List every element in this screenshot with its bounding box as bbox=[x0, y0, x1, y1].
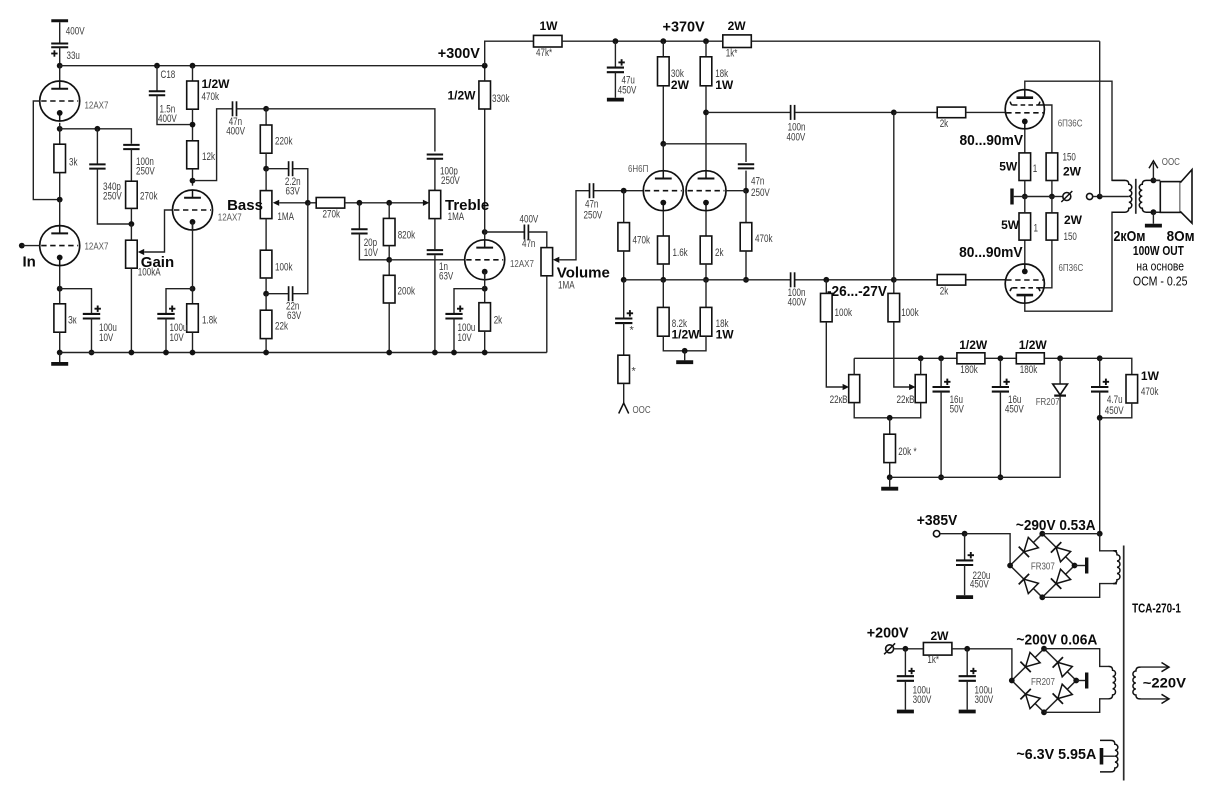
svg-text:150: 150 bbox=[1063, 152, 1076, 164]
probe bar (6.3V center tap) bbox=[1100, 748, 1104, 765]
capacitor 47u 450V bbox=[607, 67, 624, 69]
wire cap1 feed bbox=[904, 649, 906, 676]
wire 6.3V center tap bbox=[1103, 755, 1115, 757]
input terminal In dot bbox=[19, 243, 25, 249]
junction bias riser at mid rail bbox=[891, 277, 897, 283]
upper top vertex node bbox=[1039, 531, 1045, 537]
svg-text:1/2W: 1/2W bbox=[202, 77, 231, 91]
wire Volume wiper to 47n 250V bbox=[559, 191, 589, 260]
lower left vertex node (+) bbox=[1009, 678, 1015, 684]
wire Volume pot bottom to ground bus bbox=[546, 276, 548, 353]
wire lower plate to primary bottom bbox=[1025, 212, 1125, 311]
wire V1a grid to lower node bbox=[33, 101, 59, 200]
junction node A (V1b plate / V1a grid) bbox=[57, 197, 63, 203]
svg-text:200k: 200k bbox=[398, 286, 416, 298]
svg-text:80...90mV: 80...90mV bbox=[960, 132, 1024, 149]
svg-text:250V: 250V bbox=[103, 190, 123, 202]
probe bar (200V winding return) bbox=[1085, 673, 1088, 689]
svg-text:1: 1 bbox=[1034, 223, 1039, 235]
svg-text:FR207: FR207 bbox=[1036, 397, 1060, 408]
svg-text:470k: 470k bbox=[1141, 386, 1159, 398]
svg-text:1/2W: 1/2W bbox=[448, 89, 477, 103]
upper bottom vertex node bbox=[1039, 594, 1045, 600]
power transformer 220V mains winding bbox=[1133, 667, 1141, 699]
wire 47n#2 to Volume pot top bbox=[529, 232, 547, 248]
resistor 180k 1/2W #2 bbox=[1016, 353, 1044, 364]
wire cathode node to 1.8k bbox=[192, 289, 194, 304]
triode V3 12AX7 (third stage) bbox=[465, 240, 505, 280]
svg-text:470k: 470k bbox=[633, 235, 651, 247]
OOC connector chevron (feedback tail) bbox=[619, 403, 629, 414]
wire grid node down to 470k bbox=[623, 191, 625, 223]
wire rail to 16u 50V bbox=[940, 358, 942, 387]
wire secondary bottom to speaker bbox=[1153, 211, 1160, 213]
junction 470k at rail A bbox=[190, 63, 196, 69]
svg-text:300V: 300V bbox=[975, 694, 995, 706]
wire V1a cathode down to 3k bbox=[59, 123, 61, 144]
wire grid rail to 2k bbox=[894, 111, 937, 113]
junction 20p tap bbox=[357, 200, 363, 206]
ground symbol (bias network) bbox=[889, 477, 891, 487]
wire 180k#1 to next node bbox=[985, 357, 1016, 359]
power terminal 400V bar bbox=[51, 19, 68, 22]
svg-text:3к: 3к bbox=[68, 315, 77, 327]
junction 1.6k at mid rail bbox=[660, 277, 666, 283]
svg-text:450V: 450V bbox=[1105, 405, 1125, 417]
resistor 2k (splitter) bbox=[700, 236, 712, 264]
resistor 20k * bbox=[884, 434, 896, 462]
resistor 180k 1/2W #1 bbox=[957, 353, 985, 364]
wire -26V node to 100k#1 bbox=[825, 280, 827, 294]
junction Gain pot top node bbox=[129, 221, 135, 227]
wire 1n to ground bus bbox=[434, 255, 436, 352]
svg-text:6П36С: 6П36С bbox=[1059, 263, 1084, 274]
wire cathode node right bbox=[60, 129, 132, 144]
wire 22n to riser bbox=[293, 203, 308, 294]
junction 200k at ground bus bbox=[386, 350, 392, 356]
svg-text:-26...-27V: -26...-27V bbox=[827, 283, 887, 300]
wire V1b cathode to junction bbox=[59, 266, 61, 289]
wire 100n to 270k bbox=[130, 149, 132, 181]
junction 2k at mid rail bbox=[703, 277, 709, 283]
ground symbol (speaker) bbox=[1152, 212, 1154, 224]
svg-text:47n: 47n bbox=[751, 176, 764, 188]
junction 4.7u at rail bbox=[1097, 355, 1103, 361]
wire 330k to +300V node bbox=[484, 66, 486, 81]
ground symbol (220u) bbox=[964, 565, 966, 595]
wire plate node up to 330k bbox=[484, 109, 486, 232]
wire preamp ground bus bbox=[60, 352, 547, 354]
wire bridge2 bottom to winding bbox=[1044, 699, 1109, 713]
capacitor 47n 250V (cross coupling) bbox=[738, 163, 754, 165]
wire secondary top to speaker bbox=[1153, 179, 1160, 181]
svg-text:*: * bbox=[630, 325, 635, 337]
potentiometer 22kB #1 body bbox=[849, 375, 860, 403]
junction tone stack top node bbox=[263, 106, 269, 112]
power transformer 290V winding bbox=[1113, 551, 1120, 584]
svg-text:180k: 180k bbox=[1020, 364, 1038, 376]
capacitor 16u 50V bbox=[933, 386, 950, 388]
resistor 100k (bass) bbox=[260, 250, 272, 278]
wire mid rail segment 2 bbox=[795, 279, 1006, 281]
wire grid wire to V3 grid bbox=[389, 259, 465, 261]
svg-text:1W: 1W bbox=[715, 78, 734, 92]
svg-text:12AX7: 12AX7 bbox=[218, 212, 242, 223]
svg-text:22k: 22k bbox=[275, 321, 289, 333]
wire 2k to ground bus bbox=[484, 331, 486, 352]
svg-text:ОСМ - 0.25: ОСМ - 0.25 bbox=[1133, 273, 1188, 288]
lower top-right diode bbox=[1058, 662, 1073, 676]
wire rail to 18k bbox=[705, 41, 707, 57]
wire V3 plate up bbox=[484, 232, 486, 240]
capacitor 33u 400V (polarized) bbox=[51, 43, 68, 45]
capacitor 100u 10V (V1b cathode) bbox=[83, 313, 100, 315]
wire 150 to output rail bbox=[1051, 181, 1053, 197]
svg-text:250V: 250V bbox=[751, 187, 771, 199]
resistor 820k bbox=[383, 218, 395, 245]
wire 8.2k from mid rail bbox=[662, 280, 664, 308]
wire 30k to plate node bbox=[662, 86, 664, 144]
upper bridge rectifier FR307 diamond bbox=[1010, 534, 1074, 598]
wire +300V preamp rail A bbox=[60, 65, 485, 67]
wire 1k* to cap2 node bbox=[952, 649, 1012, 681]
capacitor * (feedback, polarized) bbox=[615, 317, 632, 319]
svg-text:12AX7: 12AX7 bbox=[85, 242, 109, 253]
svg-text:2W: 2W bbox=[728, 19, 747, 33]
svg-text:63V: 63V bbox=[439, 271, 454, 283]
wire resistor to OOC chevron bbox=[623, 383, 625, 403]
svg-text:400V: 400V bbox=[66, 26, 86, 38]
junction splitter grid node bbox=[621, 188, 627, 194]
lower right vertex node (-) bbox=[1073, 678, 1079, 684]
svg-text:470k: 470k bbox=[202, 91, 220, 103]
wire Treble bottom to 1n bbox=[434, 219, 436, 250]
junction bass lower node bbox=[263, 291, 269, 297]
wire pot1 top to bias rail bbox=[853, 358, 855, 374]
resistor 18k 1W bbox=[700, 57, 712, 86]
wire 100u#2 to ground bus bbox=[165, 319, 167, 353]
wire 8.2k to ground node bbox=[663, 336, 684, 351]
wire cathode node to 2k bbox=[484, 289, 486, 303]
wire left plate to 47n down-coupling bbox=[663, 144, 746, 162]
wire bridge1 AC bottom to winding bbox=[1042, 584, 1117, 598]
svg-text:250V: 250V bbox=[584, 210, 604, 222]
svg-text:400V: 400V bbox=[226, 126, 246, 138]
upper right vertex node (-) bbox=[1072, 563, 1078, 569]
svg-text:100kA: 100kA bbox=[138, 267, 162, 279]
svg-text:250V: 250V bbox=[136, 166, 156, 178]
wire In to V1b grid bbox=[22, 245, 40, 247]
wire upper plate to primary top bbox=[1025, 81, 1125, 180]
svg-text:450V: 450V bbox=[618, 85, 638, 97]
svg-text:+200V: +200V bbox=[867, 625, 909, 642]
capacitor 2.2n 63V bbox=[288, 161, 290, 176]
resistor 470k 1W bbox=[1126, 375, 1138, 403]
junction upper grid rail / bias riser bbox=[891, 110, 897, 116]
wire upper cathode to 5W 1 bbox=[1024, 129, 1026, 153]
capacitor 340p 250V bbox=[89, 163, 105, 165]
capacitor 47n 400V (to volume) bbox=[523, 225, 525, 240]
wire 12k to plate node bbox=[192, 169, 194, 186]
wire 180k#2 to diode node bbox=[1044, 357, 1099, 359]
resistor 270k (tone) bbox=[316, 198, 345, 209]
junction 340p tap bbox=[95, 126, 101, 132]
svg-text:150: 150 bbox=[1064, 231, 1077, 243]
svg-text:250V: 250V bbox=[441, 175, 461, 187]
svg-text:100W OUT: 100W OUT bbox=[1133, 243, 1184, 258]
wire 1.6k to mid rail bbox=[662, 264, 664, 280]
wire left plate lead bbox=[662, 144, 664, 170]
power transformer core line bbox=[1123, 546, 1125, 781]
junction left plate node bbox=[660, 141, 666, 147]
svg-text:4.7u: 4.7u bbox=[1107, 394, 1123, 406]
junction splitter ground node bbox=[682, 348, 688, 354]
wire 3k to node A bbox=[59, 173, 61, 200]
junction 1.8k at ground bus bbox=[190, 350, 196, 356]
wire 47n 250V to grid node bbox=[594, 190, 644, 192]
wire coupling node to 100n bbox=[706, 111, 790, 113]
svg-text:2k: 2k bbox=[715, 247, 724, 259]
wire terminal to B+ node bbox=[1093, 196, 1100, 198]
wire 220V top lead bbox=[1141, 666, 1168, 668]
junction V1a cathode node bbox=[57, 126, 63, 132]
resistor 1.8k (V2 cathode) bbox=[187, 304, 199, 332]
capacitor 100n 400V (upper coupling) bbox=[790, 105, 792, 120]
wire rail to 30k bbox=[662, 41, 664, 57]
wire 220k to bass node bbox=[265, 153, 267, 169]
junction 150s at rail bbox=[1049, 194, 1055, 200]
wire 18k#2 from mid rail bbox=[705, 280, 707, 308]
wire 270k to treble wire bbox=[345, 202, 423, 204]
wire terminal to 33u cap bbox=[59, 22, 61, 43]
capacitor 22n 63V bbox=[288, 286, 290, 301]
resistor 470k 1/2W (V2 plate load) bbox=[187, 81, 199, 109]
wire 100k#2 to pot2 arrow bbox=[894, 322, 910, 387]
svg-text:1k*: 1k* bbox=[726, 47, 738, 59]
svg-text:2W: 2W bbox=[1064, 213, 1083, 227]
wire cathode node to 100u bbox=[166, 289, 193, 314]
svg-text:10V: 10V bbox=[458, 332, 473, 344]
junction 100u 300V #2 node bbox=[964, 646, 970, 652]
wire 470k to mid rail bbox=[623, 251, 625, 280]
resistor 3k (V1a cathode) bbox=[54, 144, 66, 172]
resistor 1 5W (lower cathode) bbox=[1019, 213, 1031, 240]
junction 18k at rail bbox=[703, 38, 709, 44]
svg-text:63V: 63V bbox=[286, 186, 301, 198]
junction 220u node bbox=[962, 531, 968, 537]
junction V2 cathode node bbox=[190, 286, 196, 292]
junction 30k at rail bbox=[660, 38, 666, 44]
wire mid rail to lower 2k bbox=[894, 279, 937, 281]
resistor 330k 1/2W bbox=[479, 81, 491, 109]
wire 16u 450V to bottom rail bbox=[999, 392, 1001, 478]
svg-text:2k: 2k bbox=[494, 315, 503, 327]
wire 18k#2 to ground node bbox=[685, 336, 706, 351]
junction 100u 300V #1 node bbox=[903, 646, 909, 652]
open terminal (B+ tap) bbox=[1087, 193, 1093, 199]
junction 470k-L at mid rail bbox=[621, 277, 627, 283]
wire mid rail bbox=[624, 279, 791, 281]
wire 100k to lower bass node bbox=[265, 278, 267, 294]
resistor 18k 1W (splitter) bbox=[700, 307, 712, 336]
junction Gain pot at ground bus bbox=[129, 350, 135, 356]
svg-text:+370V: +370V bbox=[663, 18, 705, 35]
terminal +200V (slashed) bbox=[886, 645, 894, 653]
wire 220u cap feed bbox=[964, 534, 966, 561]
wire V2 cathode down bbox=[192, 222, 194, 289]
wire 20p to grid wire bbox=[359, 234, 389, 260]
svg-text:220k: 220k bbox=[275, 136, 293, 148]
svg-text:10V: 10V bbox=[99, 332, 114, 344]
svg-text:FR207: FR207 bbox=[1031, 677, 1055, 688]
wire Gain wiper to V2 grid bbox=[144, 210, 172, 252]
wire bridge2 top to winding bbox=[1044, 649, 1109, 667]
wire pot1 bottom to bottom wire bbox=[854, 403, 921, 418]
svg-text:450V: 450V bbox=[970, 579, 990, 591]
svg-text:100k: 100k bbox=[901, 307, 919, 319]
resistor 12k (V2 plate) bbox=[187, 141, 199, 169]
junction 820k top bbox=[386, 200, 392, 206]
svg-text:80...90mV: 80...90mV bbox=[959, 244, 1023, 261]
junction 16u 450V at bottom rail bbox=[998, 474, 1004, 480]
svg-text:FR307: FR307 bbox=[1031, 562, 1055, 573]
svg-text:+385V: +385V bbox=[917, 512, 958, 529]
svg-text:20k *: 20k * bbox=[898, 446, 916, 458]
junction C18 at rail A bbox=[154, 63, 160, 69]
wire Bass wiper to riser bbox=[279, 202, 308, 204]
Bass pot wiper arrow bbox=[273, 200, 279, 206]
wire +300V node up to 1W resistor bbox=[485, 41, 534, 65]
wire bridge1 right to probe bbox=[1075, 565, 1086, 567]
junction ground bus left end bbox=[57, 350, 63, 356]
resistor 2k (lower grid stopper) bbox=[937, 275, 966, 286]
resistor 2k (V3 cathode) bbox=[479, 303, 491, 331]
wire bias riser bbox=[893, 112, 895, 279]
capacitor 20p 10V bbox=[351, 228, 367, 230]
wire 47n to tone node bbox=[237, 108, 266, 110]
svg-text:10V: 10V bbox=[364, 247, 379, 259]
resistor 1 5W (upper cathode) bbox=[1019, 153, 1031, 181]
capacitor 100u 10V (V3 cathode) bbox=[445, 313, 462, 315]
wire V3 cathode down bbox=[484, 272, 486, 289]
junction 20k at pots wire bbox=[887, 415, 893, 421]
diode FR207 (bias) bbox=[1053, 384, 1068, 395]
ground symbol (100u 300V #2) bbox=[966, 681, 968, 710]
svg-text:OOC: OOC bbox=[1162, 157, 1180, 168]
junction 16u 50V at rail bbox=[938, 355, 944, 361]
triode V1a 12AX7 (upper input) bbox=[40, 81, 80, 121]
wire 220V bottom lead bbox=[1141, 698, 1168, 700]
svg-text:TCA-270-1: TCA-270-1 bbox=[1132, 601, 1181, 616]
svg-text:180k: 180k bbox=[960, 364, 978, 376]
wire down to 340p bbox=[96, 129, 98, 165]
svg-text:Bass: Bass bbox=[227, 197, 263, 214]
wire rail to 47u cap bbox=[614, 41, 616, 67]
junction B+ riser at 385V rail bbox=[1097, 531, 1103, 537]
svg-text:12AX7: 12AX7 bbox=[510, 259, 534, 270]
resistor 1.6k bbox=[658, 236, 670, 264]
test probe bar (cathode rail) bbox=[1010, 189, 1013, 205]
capacitor 100p 250V bbox=[427, 154, 443, 156]
svg-text:1.6k: 1.6k bbox=[673, 247, 689, 259]
resistor 470k (right grid) bbox=[740, 223, 752, 251]
potentiometer Volume 1MA body bbox=[541, 248, 553, 276]
lower bottom-left diode bbox=[1026, 694, 1041, 708]
wire bridge1 AC top to winding bbox=[1100, 534, 1117, 551]
junction 820k/grid wire bbox=[386, 257, 392, 263]
wire mid rail down to tail cap bbox=[623, 280, 625, 319]
capacitor 100n 400V (lower coupling) bbox=[790, 272, 792, 287]
wire pot2 top bbox=[920, 358, 922, 374]
junction right grid node bbox=[743, 188, 749, 194]
wire lower cathode to 5W#2 bbox=[1024, 240, 1026, 263]
svg-text:2W: 2W bbox=[671, 78, 690, 92]
resistor 150 2W (lower screen) bbox=[1046, 213, 1058, 240]
Volume pot wiper arrow bbox=[553, 257, 559, 263]
wire lower node to 22n bbox=[266, 293, 288, 295]
wire +370V riser down bbox=[1099, 41, 1101, 196]
svg-text:~200V 0.06A: ~200V 0.06A bbox=[1016, 631, 1097, 648]
wire terminal to 220u node bbox=[940, 533, 965, 535]
22kB #2 wiper arrow bbox=[909, 384, 915, 390]
wire 385V rail to bridge bbox=[965, 534, 1011, 566]
resistor 22k (bass) bbox=[260, 310, 272, 338]
speaker symbol bbox=[1160, 182, 1180, 213]
triode V2 12AX7 (second stage) bbox=[173, 190, 213, 230]
wire 200k to ground bus bbox=[388, 303, 390, 353]
wire rail to C18 bbox=[156, 66, 158, 91]
junction 16u 50V at bottom rail bbox=[938, 474, 944, 480]
resistor 220k (bass) bbox=[260, 125, 272, 153]
svg-text:1MA: 1MA bbox=[277, 211, 294, 223]
wire 3k to ground bus bbox=[59, 332, 61, 352]
wire upper g2 to 150 2W bbox=[1045, 105, 1052, 153]
svg-text:2k: 2k bbox=[940, 286, 949, 298]
wire 820k to grid node bbox=[388, 246, 390, 260]
wire C18 to 12k node bbox=[157, 95, 193, 124]
svg-text:5W: 5W bbox=[1001, 218, 1020, 232]
svg-text:1: 1 bbox=[1033, 163, 1038, 175]
wire rail to 16u 450V bbox=[999, 358, 1001, 387]
wire tail cap to resistor * bbox=[623, 323, 625, 355]
svg-text:22кВ: 22кВ bbox=[830, 394, 848, 406]
junction 1n at ground bus bbox=[432, 350, 438, 356]
wire node A to V1b plate bbox=[59, 200, 61, 226]
lower bottom vertex node bbox=[1041, 709, 1047, 715]
svg-text:300V: 300V bbox=[913, 694, 933, 706]
capacitor 4.7u 450V bbox=[1091, 386, 1108, 388]
wire 820k node to 200k bbox=[388, 260, 390, 276]
wire rail to diode bbox=[1059, 358, 1061, 384]
upper bottom-right diode bbox=[1056, 569, 1071, 583]
resistor 470k (splitter grid) bbox=[618, 223, 630, 251]
wire 100u to ground bus bbox=[91, 319, 93, 353]
wire left cathode to 1.6k bbox=[662, 211, 664, 236]
triode 6N6P left half bbox=[643, 171, 683, 211]
svg-text:1W: 1W bbox=[540, 19, 559, 33]
capacitor 100u 300V #2 bbox=[959, 675, 976, 677]
svg-text:1/2W: 1/2W bbox=[1019, 338, 1048, 352]
wire OOC arrow shaft bbox=[1152, 163, 1154, 180]
svg-text:12k: 12k bbox=[202, 151, 216, 163]
ground symbol (100u 300V #1) bbox=[904, 681, 906, 710]
junction +300V node bbox=[482, 63, 488, 69]
svg-text:+300V: +300V bbox=[438, 45, 480, 62]
wire right grid wire bbox=[726, 190, 746, 192]
wire 16u 50V to bottom rail bbox=[940, 392, 942, 478]
svg-text:47n: 47n bbox=[522, 238, 535, 250]
resistor 270k (feedback) bbox=[126, 181, 138, 208]
